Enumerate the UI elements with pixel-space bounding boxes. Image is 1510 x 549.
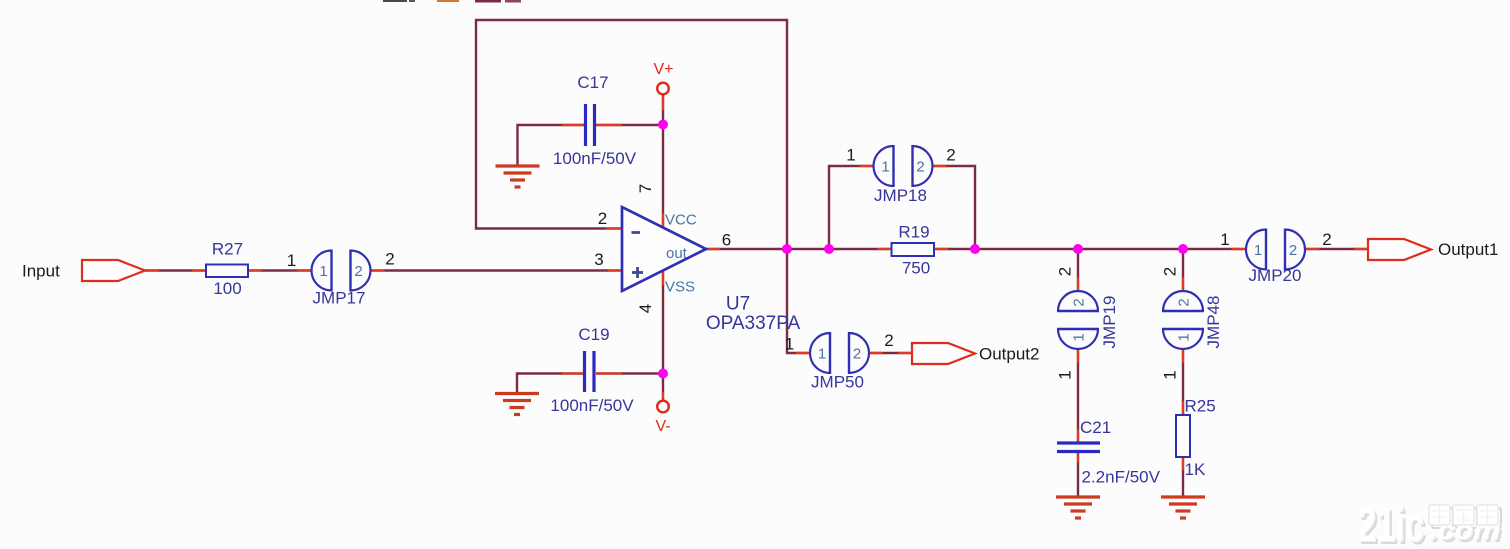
svg-text:2: 2 <box>598 209 607 228</box>
svg-text:6: 6 <box>722 231 731 250</box>
svg-text:2: 2 <box>946 146 955 165</box>
svg-text:2.2nF/50V: 2.2nF/50V <box>1082 468 1161 487</box>
svg-text:JMP17: JMP17 <box>313 289 366 308</box>
svg-text:1: 1 <box>846 146 855 165</box>
svg-text:R25: R25 <box>1185 397 1216 416</box>
svg-text:21ic: 21ic <box>1357 499 1424 549</box>
svg-text:C17: C17 <box>577 73 608 92</box>
svg-text:C21: C21 <box>1080 418 1111 437</box>
svg-text:R19: R19 <box>898 223 929 242</box>
svg-text:1: 1 <box>1161 370 1180 379</box>
svg-text:2: 2 <box>1176 298 1193 306</box>
svg-text:100nF/50V: 100nF/50V <box>550 396 634 415</box>
svg-text:1: 1 <box>1056 370 1075 379</box>
svg-text:3: 3 <box>594 250 603 269</box>
svg-text:1: 1 <box>881 159 889 176</box>
svg-text:JMP18: JMP18 <box>874 186 927 205</box>
svg-text:1: 1 <box>1176 333 1193 341</box>
svg-text:2: 2 <box>354 263 362 280</box>
svg-text:1: 1 <box>1071 333 1088 341</box>
svg-text:VCC: VCC <box>665 212 697 229</box>
svg-text:VSS: VSS <box>665 279 695 296</box>
svg-text:JMP50: JMP50 <box>811 373 864 392</box>
svg-text:100nF/50V: 100nF/50V <box>553 149 637 168</box>
svg-text:750: 750 <box>902 259 930 278</box>
svg-text:JMP48: JMP48 <box>1204 296 1223 349</box>
svg-text:1: 1 <box>1254 242 1262 259</box>
svg-text:Output1: Output1 <box>1438 240 1499 259</box>
svg-text:Input: Input <box>22 262 60 281</box>
svg-text:2: 2 <box>1056 267 1075 276</box>
svg-text:U7: U7 <box>726 294 750 315</box>
svg-text:OPA337PA: OPA337PA <box>706 313 801 334</box>
svg-text:V+: V+ <box>653 61 673 78</box>
svg-text:JMP20: JMP20 <box>1249 266 1302 285</box>
svg-text:2: 2 <box>1071 298 1088 306</box>
svg-text:7: 7 <box>636 184 655 193</box>
svg-text:1: 1 <box>1220 230 1229 249</box>
svg-text:2: 2 <box>1161 267 1180 276</box>
svg-text:100: 100 <box>213 279 241 298</box>
svg-text:1: 1 <box>818 346 826 363</box>
svg-text:V-: V- <box>655 418 670 435</box>
svg-text:1: 1 <box>785 335 794 354</box>
svg-text:Output2: Output2 <box>979 345 1040 364</box>
svg-text:1: 1 <box>287 251 296 270</box>
svg-text:2: 2 <box>1289 242 1297 259</box>
svg-text:R27: R27 <box>212 240 243 259</box>
svg-text:2: 2 <box>385 250 394 269</box>
svg-text:2: 2 <box>916 159 924 176</box>
svg-text:out: out <box>666 245 688 262</box>
svg-text:2: 2 <box>853 346 861 363</box>
svg-text:2: 2 <box>884 331 893 350</box>
svg-text:C19: C19 <box>578 325 609 344</box>
svg-text:JMP19: JMP19 <box>1100 296 1119 349</box>
svg-text:1: 1 <box>319 263 327 280</box>
svg-text:4: 4 <box>636 304 655 313</box>
svg-text:1K: 1K <box>1185 460 1206 479</box>
svg-text:2: 2 <box>1322 230 1331 249</box>
